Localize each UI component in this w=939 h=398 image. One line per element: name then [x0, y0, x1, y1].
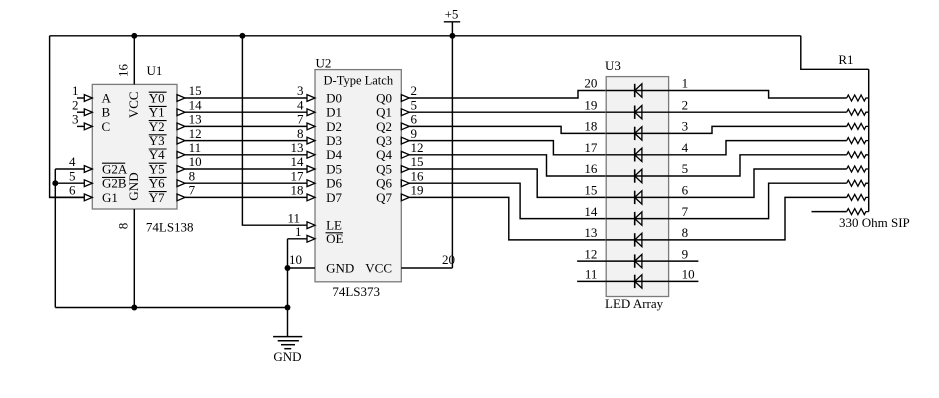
svg-text:3: 3 — [297, 83, 304, 98]
resistor R1-1 — [847, 95, 869, 101]
svg-text:7: 7 — [297, 112, 304, 127]
pin 3 U1 input C — [72, 112, 110, 134]
wire Q6 to LED pin 14 — [409, 183, 606, 218]
pin U2 input D5 number 14 — [291, 154, 342, 176]
label R1 — [838, 52, 853, 67]
svg-text:2: 2 — [411, 83, 418, 98]
pin U1 output Y6 number 8 — [149, 168, 195, 190]
pin number 6 U3 right — [682, 183, 689, 198]
svg-text:9: 9 — [411, 126, 418, 141]
svg-text:Q4: Q4 — [376, 147, 392, 162]
svg-text:8: 8 — [297, 126, 304, 141]
pin number 11 U3 left — [585, 267, 598, 282]
wire LED pin 5 to resistor 5 — [669, 155, 847, 176]
svg-text:2: 2 — [682, 97, 689, 112]
pin 4 U1 input G2A — [55, 154, 128, 176]
pin U2 input D1 number 4 — [297, 97, 342, 119]
svg-text:D-Type Latch: D-Type Latch — [324, 73, 394, 87]
pin number 1 U3 right — [682, 76, 689, 91]
svg-text:A: A — [102, 90, 112, 105]
svg-text:20: 20 — [442, 252, 455, 267]
IC U1 74LS138 body — [92, 84, 177, 209]
svg-text:18: 18 — [291, 183, 304, 198]
wire LED pin 2 to resistor 2 — [669, 111, 847, 113]
pin number 17 U3 left — [584, 140, 598, 155]
label U3 — [605, 58, 621, 73]
wire LED pin 6 to resistor 6 — [669, 169, 847, 197]
pin number 3 U3 right — [682, 119, 689, 134]
LED D8 row — [606, 233, 668, 246]
wire U1 GND pin 8 — [133, 209, 135, 308]
wire Y7 to D7 — [185, 196, 307, 198]
svg-text:LED Array: LED Array — [605, 296, 664, 311]
label 74LS138 — [146, 220, 194, 235]
wire stub U3 pin 10 — [669, 280, 699, 282]
wire Y2 to D2 — [185, 125, 307, 127]
svg-text:GND: GND — [126, 172, 141, 200]
label 74LS373 — [332, 284, 380, 299]
svg-text:10: 10 — [682, 267, 695, 282]
pin U1 output Y4 number 11 — [149, 140, 201, 162]
label U1 VCC rotated — [126, 91, 141, 118]
node junction G2B tie — [52, 180, 58, 186]
resistor R1-9 — [847, 209, 869, 215]
svg-text:G1: G1 — [102, 190, 118, 205]
pin U2 input D4 number 13 — [291, 140, 343, 162]
svg-text:11: 11 — [585, 267, 598, 282]
pin U2 input D7 number 18 — [291, 183, 343, 205]
pin number 5 U3 right — [682, 161, 689, 176]
pin 10 U2 GND — [288, 252, 355, 275]
svg-text:4: 4 — [682, 140, 689, 155]
pin number 20 U3 left — [584, 76, 597, 91]
svg-text:5: 5 — [411, 97, 418, 112]
resistor R1-8 — [847, 194, 869, 200]
label U2 — [316, 55, 332, 70]
pin number 15 U3 left — [584, 183, 597, 198]
wire GND rail — [55, 307, 287, 309]
wire LED pin 3 to resistor 3 — [669, 126, 847, 133]
pin 11 U2 LE — [287, 210, 342, 232]
wire Y3 to D3 — [185, 140, 307, 142]
svg-text:U1: U1 — [147, 63, 163, 78]
svg-text:D4: D4 — [326, 147, 342, 162]
pin U1 output Y5 number 10 — [149, 154, 202, 176]
svg-text:16: 16 — [116, 64, 131, 78]
pin U2 output Q3 number 9 — [376, 126, 417, 148]
svg-text:10: 10 — [189, 154, 202, 169]
svg-text:15: 15 — [584, 183, 597, 198]
label U1 GND rotated — [126, 172, 141, 200]
svg-text:D1: D1 — [326, 105, 342, 120]
svg-text:Q6: Q6 — [376, 176, 392, 191]
resistor R1-6 — [847, 166, 869, 172]
svg-text:GND: GND — [326, 260, 354, 275]
svg-text:74LS373: 74LS373 — [332, 284, 380, 299]
pin number 8 U3 right — [682, 225, 689, 240]
svg-text:6: 6 — [682, 183, 689, 198]
node junction top rail at LE riser — [239, 33, 245, 39]
pin U1 output Y2 number 13 — [149, 112, 202, 134]
svg-text:330 Ohm SIP: 330 Ohm SIP — [839, 215, 910, 230]
svg-text:14: 14 — [189, 97, 203, 112]
wire LED pin 4 to resistor 4 — [669, 141, 847, 155]
wire Q0 to LED pin 20 — [409, 91, 606, 99]
svg-text:D2: D2 — [326, 119, 342, 134]
svg-text:Q5: Q5 — [376, 161, 392, 176]
wire LE riser from +5 rail — [242, 36, 307, 225]
wire LED pin 7 to resistor 7 — [669, 183, 847, 218]
wire +5 top rail — [50, 35, 801, 37]
node junction GND rail at U1 GND — [131, 305, 137, 311]
svg-text:Q0: Q0 — [376, 90, 392, 105]
pin number 12 U3 left — [584, 246, 597, 261]
svg-text:+5: +5 — [445, 7, 459, 22]
svg-text:4: 4 — [69, 154, 76, 169]
svg-text:Q7: Q7 — [376, 190, 392, 205]
pin 1 U2 OE — [288, 224, 344, 246]
pin 1 U1 input A — [72, 83, 112, 105]
svg-text:15: 15 — [189, 83, 202, 98]
svg-text:D3: D3 — [326, 133, 342, 148]
svg-text:13: 13 — [584, 225, 597, 240]
svg-text:13: 13 — [291, 140, 304, 155]
pin number 18 U3 left — [584, 119, 597, 134]
pin U2 output Q1 number 5 — [376, 97, 417, 119]
svg-text:Q1: Q1 — [376, 105, 392, 120]
svg-text:8: 8 — [116, 223, 131, 230]
svg-text:74LS138: 74LS138 — [146, 220, 194, 235]
pin U2 input D6 number 17 — [291, 168, 343, 190]
wire LED pin 1 to resistor 1 — [669, 91, 847, 99]
svg-text:2: 2 — [72, 97, 79, 112]
LED D9 row — [606, 254, 668, 267]
node junction GND pin 10 — [285, 265, 291, 271]
wire R1 common bus — [868, 69, 870, 211]
resistor R1-7 — [847, 180, 869, 186]
svg-text:11: 11 — [189, 140, 202, 155]
svg-text:12: 12 — [411, 140, 424, 155]
pin U1 output Y1 number 14 — [149, 97, 202, 119]
svg-text:D0: D0 — [326, 90, 342, 105]
wire Q5 to LED pin 15 — [409, 169, 606, 197]
svg-text:1: 1 — [72, 83, 79, 98]
wire G2A/G2B tie-down vertical — [54, 169, 56, 308]
pin U2 output Q0 number 2 — [376, 83, 417, 105]
svg-text:B: B — [102, 105, 111, 120]
wire Y6 to D6 — [185, 182, 307, 184]
LED D1 row — [606, 84, 668, 97]
svg-text:19: 19 — [584, 97, 597, 112]
svg-text:14: 14 — [291, 154, 305, 169]
wire Q3 to LED pin 17 — [409, 141, 606, 155]
svg-text:3: 3 — [72, 112, 79, 127]
pin U1 output Y0 number 15 — [149, 83, 202, 105]
wire Y5 to D5 — [185, 168, 307, 170]
ground symbol — [273, 337, 302, 364]
resistor R1-3 — [847, 123, 869, 129]
LED D5 row — [606, 169, 668, 182]
LED D6 row — [606, 191, 668, 204]
svg-text:5: 5 — [682, 161, 689, 176]
pin number 7 U3 right — [682, 204, 689, 219]
svg-text:4: 4 — [297, 97, 304, 112]
pin U2 output Q6 number 16 — [376, 168, 424, 190]
svg-text:R1: R1 — [838, 52, 853, 67]
svg-text:13: 13 — [189, 112, 202, 127]
svg-text:17: 17 — [291, 168, 305, 183]
svg-text:D5: D5 — [326, 161, 342, 176]
svg-text:1: 1 — [295, 224, 302, 239]
pin 2 U1 input B — [72, 97, 111, 119]
label U1 — [147, 63, 163, 78]
svg-text:D6: D6 — [326, 176, 342, 191]
wire Y0 to D0 — [185, 97, 307, 99]
wire LED pin 8 to resistor 8 — [669, 197, 847, 240]
wire Q2 to LED pin 18 — [409, 126, 606, 133]
svg-text:6: 6 — [69, 183, 76, 198]
pin 5 U1 input G2B — [55, 168, 127, 190]
wire Y1 to D1 — [185, 111, 307, 113]
pin U2 output Q2 number 6 — [376, 112, 417, 134]
svg-text:16: 16 — [584, 161, 598, 176]
svg-text:3: 3 — [682, 119, 689, 134]
LED D7 row — [606, 212, 668, 225]
svg-text:12: 12 — [189, 126, 202, 141]
label D-Type Latch — [324, 73, 394, 87]
svg-text:5: 5 — [69, 168, 76, 183]
resistor R1-2 — [847, 109, 869, 115]
svg-text:17: 17 — [584, 140, 598, 155]
pin 20 U2 VCC — [365, 36, 455, 276]
LED D2 row — [606, 106, 668, 119]
svg-text:D7: D7 — [326, 190, 342, 205]
svg-text:OE: OE — [326, 231, 343, 246]
pin U2 input D0 number 3 — [297, 83, 342, 105]
svg-text:6: 6 — [411, 112, 418, 127]
svg-text:9: 9 — [682, 246, 689, 261]
svg-text:Q3: Q3 — [376, 133, 392, 148]
pin number 4 U3 right — [682, 140, 689, 155]
pin number 8 — [116, 223, 131, 230]
svg-text:16: 16 — [411, 168, 425, 183]
svg-text:U3: U3 — [605, 58, 621, 73]
pin U2 output Q5 number 15 — [376, 154, 423, 176]
pin number 10 U3 right — [682, 267, 695, 282]
wire Y4 to D4 — [185, 154, 307, 156]
pin number 16 U3 left — [584, 161, 598, 176]
wire stub U3 pin 11 — [577, 280, 606, 282]
svg-text:1: 1 — [682, 76, 689, 91]
svg-text:15: 15 — [411, 154, 424, 169]
resistor R1-4 — [847, 138, 869, 144]
pin U1 output Y3 number 12 — [149, 126, 202, 148]
wire left +5 rail to G1 — [50, 36, 85, 198]
svg-text:14: 14 — [584, 204, 598, 219]
LED D4 row — [606, 148, 668, 161]
pin number 19 U3 left — [584, 97, 597, 112]
wire OE/GND drop to ground — [287, 239, 289, 337]
wire stub U3 pin 9 — [669, 260, 699, 262]
node junction top rail at U1 VCC — [131, 33, 137, 39]
pin number 13 U3 left — [584, 225, 597, 240]
IC U2 74LS373 body — [315, 70, 401, 282]
svg-text:8: 8 — [682, 225, 689, 240]
svg-text:12: 12 — [584, 246, 597, 261]
pin U2 output Q4 number 12 — [376, 140, 423, 162]
svg-text:7: 7 — [189, 183, 196, 198]
wire +5 feed to R1 — [801, 36, 869, 70]
svg-text:18: 18 — [584, 119, 597, 134]
svg-text:19: 19 — [411, 183, 424, 198]
pin number 2 U3 right — [682, 97, 689, 112]
wire Q1 to LED pin 19 — [409, 111, 606, 113]
pin U2 output Q7 number 19 — [376, 183, 423, 205]
svg-text:7: 7 — [682, 204, 689, 219]
svg-text:10: 10 — [289, 252, 302, 267]
svg-text:C: C — [102, 119, 111, 134]
pin U2 input D3 number 8 — [297, 126, 342, 148]
power symbol +5 — [444, 7, 460, 36]
wire Q7 to LED pin 13 — [409, 197, 606, 240]
svg-text:GND: GND — [273, 349, 301, 364]
svg-text:U2: U2 — [316, 55, 332, 70]
svg-text:Q2: Q2 — [376, 119, 392, 134]
node junction GND rail at ground symbol — [285, 305, 291, 311]
pin U2 input D2 number 7 — [297, 112, 342, 134]
pin number 9 U3 right — [682, 246, 689, 261]
LED D10 row — [606, 275, 668, 288]
pin number 14 U3 left — [584, 204, 598, 219]
pin U1 output Y7 number 7 — [149, 183, 196, 205]
pin number 16 — [116, 64, 131, 78]
resistor R1-5 — [847, 152, 869, 158]
LED D3 row — [606, 127, 668, 140]
wire open stub resistor 9 — [812, 211, 847, 213]
pin 6 U1 input G1 — [50, 183, 118, 205]
svg-text:VCC: VCC — [365, 260, 392, 275]
wire stub U3 pin 12 — [577, 260, 606, 262]
svg-text:VCC: VCC — [126, 91, 141, 118]
label LED Array — [605, 296, 664, 311]
svg-text:8: 8 — [189, 168, 196, 183]
node junction +5 at U2 VCC riser — [449, 33, 455, 39]
IC U3 LED Array body — [606, 77, 668, 297]
wire U1 VCC pin 16 — [133, 36, 135, 85]
svg-text:20: 20 — [584, 76, 597, 91]
label 330 Ohm SIP — [839, 215, 910, 230]
wire Q4 to LED pin 16 — [409, 155, 606, 176]
